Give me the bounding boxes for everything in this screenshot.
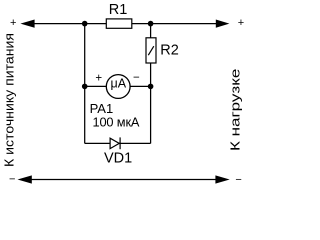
wire meter left <box>85 85 107 87</box>
wire top rail left arrow <box>20 20 34 28</box>
diode VD1 triangle <box>110 138 119 148</box>
wire bottom rail left arrow <box>18 175 32 183</box>
svg-text:−: − <box>235 174 241 186</box>
wire right vertical lower <box>150 63 152 143</box>
meter PA1 (microammeter) <box>106 75 130 99</box>
svg-text:μA: μA <box>111 77 127 91</box>
svg-text:К источнику питания: К источнику питания <box>3 33 17 167</box>
wire bottom rail <box>30 179 216 181</box>
resistor R2 <box>146 38 156 63</box>
svg-text:+: + <box>10 17 16 29</box>
wire top rail left segment <box>33 23 107 25</box>
svg-text:+: + <box>95 72 102 84</box>
svg-text:−: − <box>133 72 140 84</box>
wire right vertical upper <box>150 24 152 38</box>
resistor R2 adjustment stroke <box>148 46 154 55</box>
junction node A (top left) <box>82 21 88 27</box>
svg-text:R2: R2 <box>160 42 179 58</box>
svg-text:100 мкА: 100 мкА <box>93 114 140 129</box>
wire left vertical <box>84 24 86 144</box>
wire bottom rail right arrow <box>215 175 229 183</box>
resistor R1 <box>106 19 132 28</box>
diode VD1 cathode bar <box>119 137 121 149</box>
svg-text:−: − <box>9 174 15 186</box>
svg-text:VD1: VD1 <box>104 150 132 166</box>
junction node C (meter left) <box>82 84 88 90</box>
wire diode row <box>85 142 151 144</box>
wire meter right <box>130 85 151 87</box>
svg-text:+: + <box>238 17 244 29</box>
wire top rail right segment <box>132 23 217 25</box>
junction node B (top right) <box>148 21 154 27</box>
svg-text:R1: R1 <box>109 2 128 18</box>
junction node D (meter right) <box>148 84 154 90</box>
svg-text:К нагрузке: К нагрузке <box>228 69 242 151</box>
wire top rail right arrow <box>216 20 230 28</box>
